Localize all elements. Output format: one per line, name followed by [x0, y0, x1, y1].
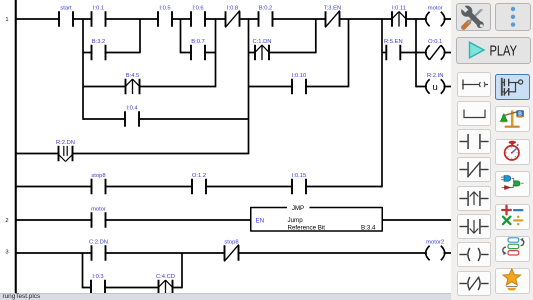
contact I:0.3 (NO) — [90, 274, 106, 295]
wire branch B:0.7 — [181, 52, 216, 54]
svg-text:stop8: stop8 — [91, 173, 105, 179]
svg-text:B:3.4: B:3.4 — [361, 225, 376, 232]
contact I:0.10 (NO) — [291, 73, 307, 94]
svg-text:Reference Bit: Reference Bit — [288, 225, 326, 232]
svg-text:I:0.5: I:0.5 — [159, 6, 170, 12]
contact B:0.7 (NO) — [190, 39, 206, 60]
contact start (NO) — [58, 6, 74, 27]
contact I:0.5 (NO) — [157, 6, 173, 27]
svg-text:B:3.2: B:3.2 — [92, 39, 106, 45]
contact R:2.DN (falling edge) — [56, 140, 75, 162]
contact I:0.6 (NO) — [190, 6, 206, 27]
svg-text:start: start — [60, 6, 72, 12]
palette: math instructions — [495, 204, 530, 230]
contact O:1.2 (NO) — [191, 173, 207, 194]
coil motor — [426, 6, 445, 27]
palette: new rung tool — [457, 72, 491, 97]
svg-text:motor: motor — [91, 207, 106, 213]
svg-text:I:0.8: I:0.8 — [227, 6, 238, 12]
svg-text:motor2: motor2 — [426, 240, 444, 246]
palette: output coil tool — [457, 242, 491, 267]
coil O:0.1 — [426, 39, 445, 60]
palette: negated coil tool — [457, 271, 491, 296]
wire left power rail — [15, 0, 17, 294]
svg-text:C:2.DN: C:2.DN — [89, 240, 108, 246]
svg-text:B: B — [518, 112, 522, 118]
wire branch R:2.DN — [16, 153, 249, 155]
svg-text:2: 2 — [5, 218, 8, 224]
wire branch R:5.EN / O:0.1 — [382, 52, 452, 54]
palette: NO contact tool — [457, 129, 491, 154]
contact I:0.1 (NO) — [91, 6, 107, 27]
svg-text:u: u — [433, 82, 438, 93]
wire rung 3 branch right vertical — [181, 253, 183, 288]
contact B:4.5 (rising edge) — [125, 73, 141, 94]
wire vertical junction D x215.5 — [215, 19, 217, 87]
tools (wrench & screwdriver) button — [456, 3, 491, 31]
contact R:5.EN (NO) — [384, 39, 403, 60]
wire branch B:4.5 — [83, 86, 216, 88]
wire rung 3 lower branch — [83, 287, 183, 289]
palette: timer instructions — [495, 139, 530, 165]
contact I:0.11 (rising edge) — [391, 6, 407, 27]
svg-text:1: 1 — [5, 17, 8, 23]
svg-text:T:3.EN: T:3.EN — [324, 6, 341, 12]
contact stop8 (rung 3) (NC) — [224, 240, 240, 262]
svg-text:I:0.3: I:0.3 — [92, 274, 103, 280]
contact C:1.DN (rising edge) — [252, 39, 271, 60]
contact C:2.DN (NO) — [89, 240, 108, 261]
wire rung 3 main — [16, 252, 452, 254]
menu (three dots) button — [495, 3, 531, 31]
svg-text:Jump: Jump — [288, 217, 304, 224]
wire vertical junction A x83 — [82, 19, 84, 120]
palette: branch tool — [457, 101, 491, 126]
svg-text:I:0.4: I:0.4 — [126, 106, 138, 112]
svg-text:R:2.IN: R:2.IN — [427, 73, 443, 79]
svg-text:motor: motor — [428, 6, 443, 12]
contact C:4.CD (rising edge) — [156, 274, 175, 295]
wire branch I:0.10 — [249, 86, 349, 88]
PLAY button — [456, 37, 532, 64]
svg-text:I:0.6: I:0.6 — [192, 6, 203, 12]
svg-text:I:0.15: I:0.15 — [292, 173, 307, 179]
wire branch C:1.DN — [249, 52, 316, 54]
coil R:2.IN — [426, 73, 445, 94]
wire vertical junction I x416 — [415, 19, 417, 87]
contact stop8 (row 1 branch) (NO) — [91, 173, 107, 194]
svg-text:I:0.10: I:0.10 — [292, 73, 307, 79]
wire branch R:2.IN — [416, 86, 452, 88]
svg-text:I:0.11: I:0.11 — [392, 6, 406, 12]
svg-text:PLAY: PLAY — [490, 43, 518, 60]
svg-text:B:0.7: B:0.7 — [191, 39, 205, 45]
palette: favourites / special — [495, 268, 530, 294]
palette: ladder mode (selected) — [495, 74, 530, 100]
svg-text:EN: EN — [256, 218, 265, 225]
wire branch B:3.2 — [83, 52, 140, 54]
contact B:0.2 (NO) — [258, 6, 274, 27]
svg-text:C:1.DN: C:1.DN — [252, 39, 271, 45]
svg-text:O:0.1: O:0.1 — [428, 39, 442, 45]
svg-text:stop8: stop8 — [224, 240, 238, 246]
svg-text:R:2.DN: R:2.DN — [56, 140, 75, 146]
wire rung 1 main — [16, 18, 452, 20]
wire branch I:0.4 — [83, 118, 249, 120]
JMP jump instruction block — [251, 205, 383, 232]
svg-text:JMP: JMP — [292, 205, 304, 212]
wire vertical junction E x248.5 — [248, 19, 250, 154]
contact B:3.2 (NO) — [91, 39, 107, 60]
palette: NC contact tool — [457, 157, 491, 182]
wire vertical junction F x315.8 — [315, 19, 317, 53]
svg-text:C:4.CD: C:4.CD — [156, 274, 175, 280]
wire vertical junction G x348.5 — [348, 19, 350, 87]
svg-text:B:0.2: B:0.2 — [259, 6, 273, 12]
contact I:0.4 (NO) — [124, 106, 140, 127]
contact motor (rung 2) (NO) — [91, 207, 107, 228]
palette: rising edge contact tool — [457, 186, 491, 211]
svg-text:I:0.1: I:0.1 — [93, 6, 104, 12]
contact I:0.8 (NC) — [225, 6, 241, 28]
wire vertical junction H x382 — [381, 19, 383, 187]
palette: scale / compare instructions — [495, 106, 530, 132]
wire rung 3 branch left vertical — [82, 253, 84, 288]
palette: falling edge contact tool — [457, 214, 491, 239]
palette: program flow instructions — [495, 236, 530, 262]
wire vertical junction B x140 — [139, 19, 141, 53]
wire vertical junction C x180.5 — [180, 19, 182, 53]
status bar — [0, 293, 451, 300]
wire rung 2 output — [383, 219, 453, 221]
svg-text:O:1.2: O:1.2 — [192, 173, 206, 179]
coil motor2 — [426, 240, 445, 261]
svg-text:B:4.5: B:4.5 — [126, 73, 140, 79]
palette: logic gate instructions — [495, 171, 530, 197]
svg-text:R:5.EN: R:5.EN — [384, 39, 403, 45]
contact I:0.15 (NO) — [291, 173, 307, 194]
contact T:3.EN (NC) — [324, 6, 341, 28]
wire rung 2 input — [16, 219, 251, 221]
wire branch stop8 row — [16, 186, 382, 188]
svg-text:3: 3 — [5, 250, 8, 256]
